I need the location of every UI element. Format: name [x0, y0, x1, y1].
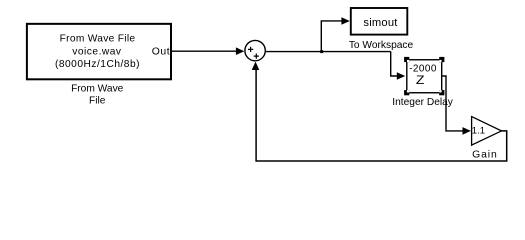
svg-text:File: File [89, 95, 106, 106]
wire to Integer Delay [391, 52, 406, 80]
svg-text:Gain: Gain [472, 150, 498, 161]
selection handle top-right [439, 57, 444, 62]
svg-text:From Wave File: From Wave File [60, 34, 136, 45]
block Integer Delay [407, 60, 442, 93]
svg-text:From Wave: From Wave [71, 83, 124, 94]
svg-text:voice.wav: voice.wav [72, 46, 122, 57]
wire Integer Delay to Gain [442, 76, 471, 135]
wire Gain feedback to sum [252, 62, 507, 161]
svg-text:simout: simout [363, 17, 398, 29]
svg-text:Out: Out [152, 46, 171, 57]
block To Workspace (simout) [351, 8, 408, 35]
svg-text:Integer Delay: Integer Delay [392, 97, 453, 108]
sum junction [245, 40, 265, 60]
selection handle bottom-left [404, 90, 409, 95]
wire From Wave File Out to sum [171, 47, 244, 55]
block From Wave File [27, 24, 171, 79]
wire sum output [265, 51, 390, 53]
node branch junction [320, 50, 323, 53]
svg-text:Z: Z [416, 73, 425, 87]
svg-text:To Workspace: To Workspace [349, 40, 414, 51]
selection handle top-left [404, 57, 409, 62]
svg-text:(8000Hz/1Ch/8b): (8000Hz/1Ch/8b) [55, 59, 140, 70]
wire branch to To Workspace [321, 17, 350, 52]
label From Wave File [71, 83, 124, 106]
svg-text:1.1: 1.1 [472, 126, 485, 137]
gain block triangle [472, 117, 502, 146]
selection handle bottom-right [439, 90, 444, 95]
